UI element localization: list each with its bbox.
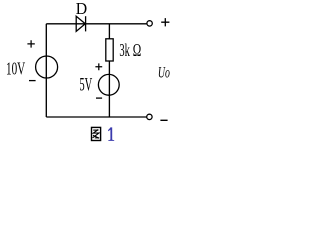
minus sign at output bottom: [160, 119, 167, 121]
svg-text:3k: 3k: [119, 40, 130, 60]
diode D (triangle pointing right with cathode bar): [76, 16, 85, 31]
svg-text:5V: 5V: [79, 75, 92, 96]
caption character TU (figure) drawn as box with strokes: [92, 127, 101, 140]
plus sign of 5V source: [95, 63, 102, 70]
wire bottom: [46, 116, 146, 118]
wire middle branch upper (junction to resistor top): [108, 24, 110, 39]
svg-text:10V: 10V: [6, 58, 25, 78]
svg-text:D: D: [76, 0, 87, 18]
minus sign of 5V source: [96, 97, 102, 99]
output terminal bottom (open circle): [147, 114, 152, 119]
caption numeral 1 (blue): [108, 127, 114, 140]
wire middle branch lower (resistor bottom through 5V source to bottom wire): [108, 61, 110, 117]
wire top (node A: diode anode rail from left source to output +): [46, 23, 147, 25]
svg-text:Uo: Uo: [158, 62, 170, 81]
minus sign of 10V source: [29, 80, 36, 82]
resistor R 3kOhm (rectangle): [106, 39, 113, 61]
plus sign of 10V source: [27, 40, 34, 47]
output terminal top (open circle): [147, 21, 152, 26]
voltage source US1 10V (circle on left wire): [36, 56, 58, 78]
svg-text:Ω: Ω: [133, 40, 142, 60]
wire left vertical: [45, 24, 47, 117]
voltage source US2 5V (circle on middle branch): [98, 74, 119, 95]
plus sign at output top: [161, 18, 169, 26]
